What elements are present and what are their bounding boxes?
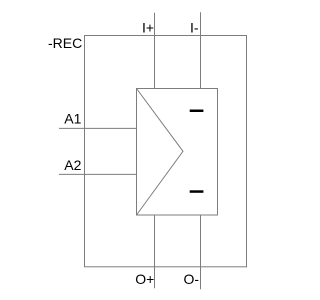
svg-text:-REC: -REC	[48, 35, 82, 51]
svg-text:O+: O+	[135, 271, 154, 287]
wire A1 input	[59, 127, 137, 129]
svg-text:A2: A2	[64, 157, 81, 173]
outer enclosure rectangle	[85, 36, 247, 267]
svg-text:I+: I+	[142, 19, 154, 35]
wire O- output	[200, 215, 202, 289]
svg-text:O-: O-	[184, 271, 200, 287]
svg-text:I-: I-	[190, 19, 199, 35]
amplifier triangle inside U1	[137, 89, 184, 216]
wire A2 input	[59, 173, 137, 175]
wire I- input	[200, 12, 202, 88]
minus polarity mark upper	[190, 110, 204, 113]
rectifier block U1 body	[137, 89, 218, 216]
wire O+ output	[154, 215, 156, 288]
minus polarity mark lower	[190, 190, 204, 193]
wire I+ input	[154, 13, 156, 89]
svg-text:A1: A1	[64, 111, 81, 127]
